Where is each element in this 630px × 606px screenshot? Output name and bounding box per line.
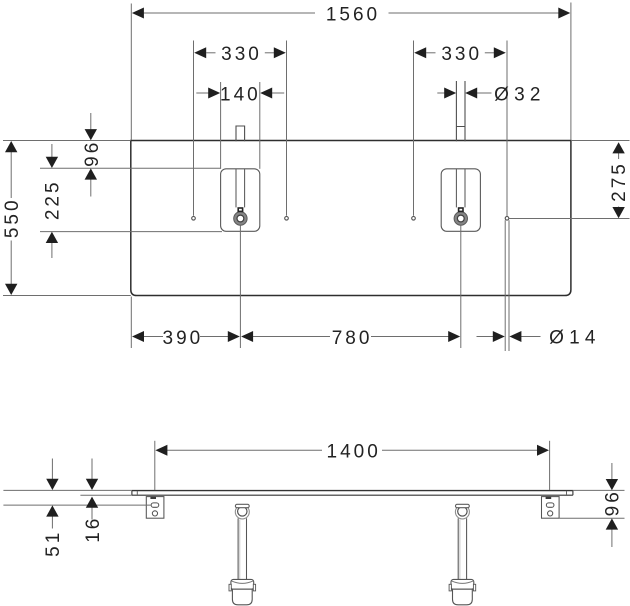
bracket left oval hole [151,503,159,507]
svg-text:Ø32: Ø32 [494,84,546,105]
drain trap 2 cup [453,589,473,605]
drain trap 2 pipe [458,518,466,582]
svg-text:780: 780 [332,328,373,349]
ext line slab bottom to left [80,494,131,496]
dim 1400 extension lines [154,441,156,490]
faucet 2 stub collar tick [456,126,465,128]
dim 330 right extension lines [413,41,415,216]
faucet recess 2 [441,169,480,232]
dim 330 left extension lines [193,41,195,216]
svg-text:Ø14: Ø14 [549,328,601,349]
dim Ø32 leaders + arrows [437,92,444,94]
faucet 2 supply lines in recess [455,169,457,208]
ext line faucet2 down [460,226,462,349]
dim 96 arrows [90,113,92,131]
bracket right screw slot [546,497,552,499]
svg-text:51: 51 [43,530,64,557]
dim 1560 line + arrows [143,12,315,14]
dim 140 line + arrows [196,92,208,94]
mounting hole right outer [505,217,509,221]
faucet 2 hose tab [459,208,463,211]
mounting hole right inner [412,217,416,221]
dim 275 extension line top [571,140,630,142]
faucet 1 mounting ring [234,212,247,225]
ext line faucet1 down [239,226,241,349]
svg-text:225: 225 [43,179,64,220]
drain trap 1 ring [235,505,249,519]
svg-text:96: 96 [603,489,624,516]
dim 330 left line + arrows [206,52,215,54]
slab right end [572,491,574,496]
drain trap 1 collar [231,579,254,589]
dim 330 right line + arrows [426,52,435,54]
svg-text:275: 275 [609,161,630,202]
ext line slab top to left [3,489,132,491]
mounting hole left inner [285,217,289,221]
dim 275 extension line bottom [509,218,630,220]
dim 96 bottom arrows [611,463,613,480]
console top-view outline [131,141,571,296]
svg-text:330: 330 [441,44,482,65]
drain trap 1 cap [235,504,249,507]
left extension line console bottom [3,295,131,297]
wall bracket left [146,497,164,519]
svg-text:330: 330 [221,44,262,65]
svg-text:1560: 1560 [326,5,380,26]
svg-text:1400: 1400 [327,441,381,462]
drain trap 2 collar [451,579,474,589]
dim 275 line + arrows [618,153,620,159]
wall bracket right [542,497,560,519]
left extension line recess bottom [40,231,222,233]
drain trap 1 pipe [238,518,246,582]
left extension line console top [3,140,131,142]
side-view slab top edge [132,490,573,492]
faucet recess 1 [221,169,260,232]
dim 140 extension lines [220,82,222,169]
dim Ø14 leaders + arrows [477,336,495,338]
dim 1400 line + arrows [166,449,322,451]
faucet 2 mounting ring [454,212,467,225]
ext line bracket bottom to right [560,517,625,519]
faucet 1 supply lines in recess [235,169,237,208]
bracket right oval hole [546,503,554,507]
svg-text:390: 390 [163,328,204,349]
bracket left screw slot [150,497,156,499]
ext line slab top to right [573,489,625,491]
drain trap 2 cap [456,504,470,507]
svg-text:16: 16 [83,516,104,543]
dim 1560 extension lines [130,4,132,141]
dim 780 line + arrows [253,336,331,338]
drain trap 2 ring [455,505,469,519]
svg-text:96: 96 [82,140,103,167]
dim 390 line + arrows [143,336,163,338]
dim 225 arrows [51,144,53,158]
dim 16 arrows [91,459,93,480]
faucet 1 hose tab [238,208,242,211]
ext lines hole Ø14 tangents down [504,220,506,351]
ext line left edge down [130,297,132,349]
bracket right round hole [548,511,553,516]
slab left end [131,491,133,496]
faucet 1 supply stub above edge [236,126,245,141]
ext line bracket axis to left [3,504,150,506]
side-view slab bottom edge [132,494,573,496]
dim 51 arrows [51,459,53,480]
left extension line recess top [40,167,221,169]
svg-text:140: 140 [220,84,261,105]
bracket left round hole [152,511,157,516]
drain trap 1 cup [232,589,252,605]
svg-text:550: 550 [2,197,23,238]
faucet 2 supply stub above edge [455,81,457,141]
mounting hole left outer [192,217,196,221]
dim 550 line + arrows [10,152,12,199]
